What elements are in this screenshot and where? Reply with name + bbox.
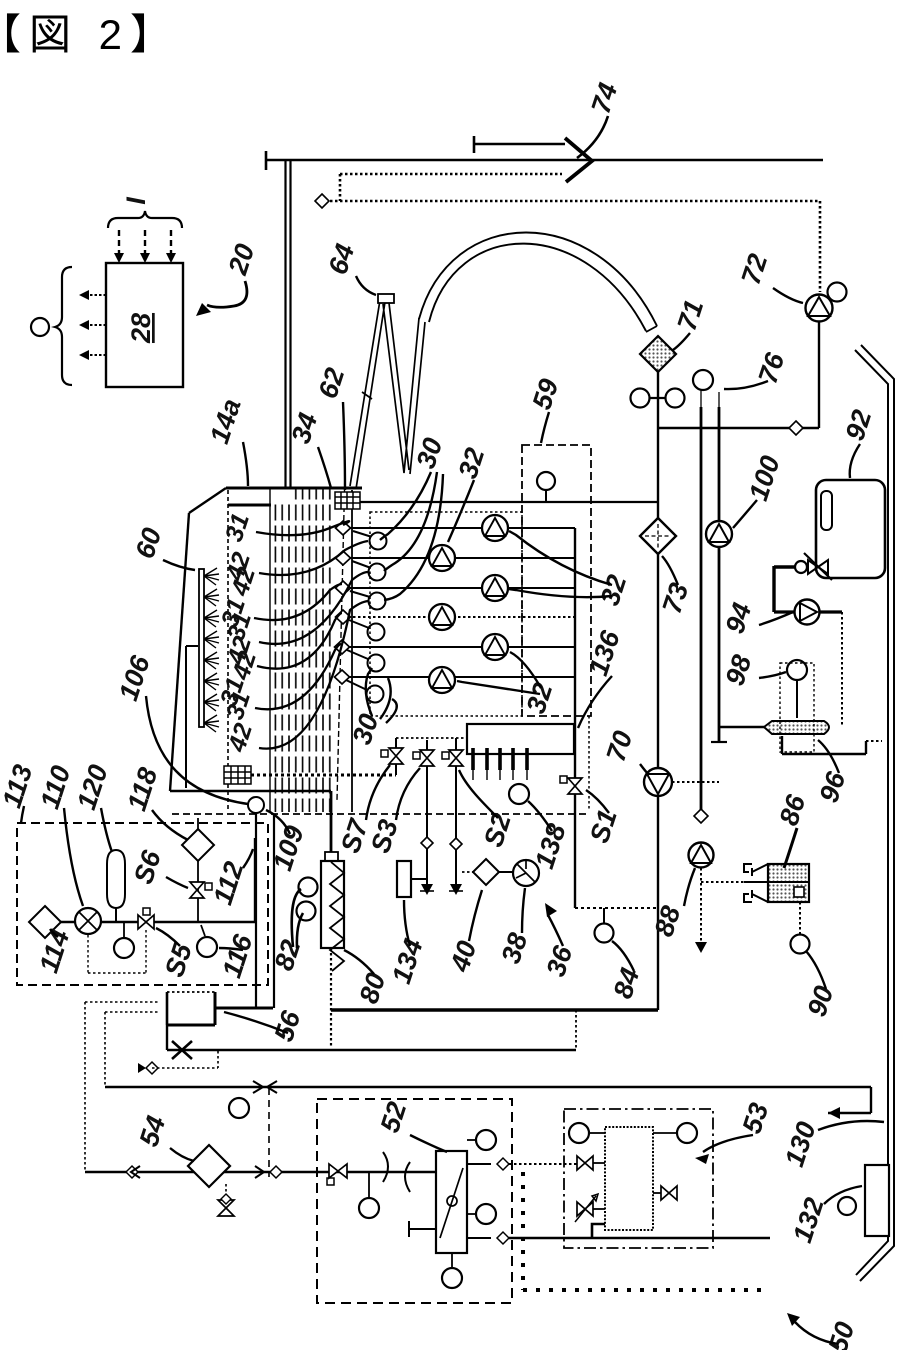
wire: line from tank top to right bbox=[360, 501, 658, 503]
pump 88 bbox=[689, 843, 714, 868]
sensor 138 bbox=[509, 784, 529, 804]
wire: from 56 to drain line bbox=[166, 1025, 168, 1050]
sensor bbox=[368, 1172, 370, 1198]
nozzle circles 31 bbox=[346, 531, 387, 703]
title 図2 bbox=[0, 11, 180, 58]
blower 52 bbox=[436, 1151, 467, 1253]
wire: main line in box bbox=[61, 921, 255, 923]
box 28 bbox=[106, 263, 183, 387]
valve S6 bbox=[197, 861, 199, 922]
tank 134 bbox=[397, 861, 411, 897]
heater box 53 inner bbox=[605, 1127, 653, 1230]
valve at 92 outlet bbox=[808, 560, 828, 574]
svg-text:28: 28 bbox=[126, 313, 156, 344]
pumps 32 column A bbox=[429, 545, 455, 693]
wire: to pump 94 bbox=[774, 565, 796, 568]
sensor 116 bbox=[201, 925, 205, 936]
heat exchanger 96 bbox=[719, 726, 764, 728]
node diamond left of dotted line bbox=[315, 194, 329, 208]
dashed box around 52 bbox=[317, 1099, 512, 1303]
sensors 82 bbox=[299, 878, 318, 897]
wire: drain line bbox=[167, 1049, 576, 1051]
52 outlets bbox=[467, 1139, 476, 1141]
nozzle diamonds 42 bbox=[335, 521, 351, 684]
wire: line x719 bbox=[718, 392, 720, 407]
filter 40 bbox=[473, 859, 499, 885]
valve S3 bbox=[426, 740, 428, 843]
wire: line x701 bbox=[700, 390, 702, 407]
svg-text:【図 2】: 【図 2】 bbox=[0, 11, 180, 58]
brace I over box 28 bbox=[108, 211, 182, 228]
filter 118 bbox=[182, 829, 214, 861]
tank 92 bbox=[816, 480, 885, 578]
burner 86 bbox=[701, 881, 744, 883]
flex coupling bbox=[383, 1152, 410, 1192]
pump 72 bbox=[806, 295, 833, 322]
dashed box 59 bbox=[522, 445, 591, 716]
wire: big box bottom bbox=[331, 1008, 658, 1012]
sprayer 60 bbox=[199, 569, 204, 727]
sensor circle 76 bbox=[693, 370, 713, 390]
wire: long return line bbox=[105, 1086, 871, 1088]
valve X bbox=[172, 1041, 192, 1059]
pump 100 bbox=[706, 521, 732, 547]
duct 64 zigzag bbox=[350, 300, 425, 489]
tank liner dotted bbox=[227, 490, 229, 812]
valve S2 bbox=[455, 738, 457, 844]
pipe arc 64 to 71 bbox=[419, 232, 657, 326]
wire: nozzle row pipes bbox=[343, 528, 575, 677]
wire: dotted header to manifold bbox=[396, 737, 467, 739]
node circle 109 bbox=[248, 797, 264, 813]
tank 14a hatched interior bbox=[271, 489, 333, 812]
grid box bottom bbox=[224, 766, 251, 784]
pump 70 bbox=[644, 768, 672, 796]
sensor 84 bbox=[603, 908, 605, 924]
spray fans bbox=[204, 568, 219, 732]
heater 80 bbox=[325, 852, 338, 861]
dashed box 113 bbox=[17, 823, 268, 985]
pump 110 bbox=[75, 908, 101, 934]
wire: box bottom step bbox=[575, 907, 658, 909]
valve S5 bbox=[138, 915, 154, 929]
drain valve below 54 bbox=[225, 1184, 227, 1200]
tank 56 bbox=[167, 991, 215, 993]
wire: supply line with filter 54 bbox=[85, 1171, 436, 1173]
sprayer feed bbox=[186, 645, 198, 647]
wire: coarse dotted boundary 50 bbox=[521, 1172, 525, 1290]
manifold 136 bbox=[467, 724, 574, 754]
box 132 bbox=[865, 1165, 889, 1236]
wire: dashed tank bottom line bbox=[172, 813, 589, 815]
dotted region box bbox=[370, 512, 522, 716]
tank top edge bbox=[226, 487, 362, 490]
twin circles node bbox=[631, 389, 650, 408]
output arrows left of box 28 bbox=[86, 295, 106, 355]
valve on line bbox=[329, 1164, 347, 1178]
flow sensor 38 bbox=[513, 860, 539, 886]
wire: system box right edge bbox=[574, 528, 576, 908]
dotted branch in box bbox=[145, 930, 147, 973]
tank shoulder bbox=[189, 488, 226, 513]
wire: right edge boundary bbox=[860, 345, 894, 1281]
wire: dotted down from 94 bbox=[841, 612, 843, 727]
sensor under pump bbox=[123, 922, 125, 938]
label O bbox=[31, 318, 49, 336]
wire: short stub line bbox=[474, 143, 565, 146]
wire: nested dotted Ls bbox=[85, 1001, 160, 1003]
valve S7 bbox=[395, 738, 397, 775]
wire: vertical line through 71 73 70 bbox=[657, 371, 659, 521]
wire: heater feed line bbox=[330, 791, 333, 854]
dashed inlet arrows into box 28 bbox=[119, 230, 171, 256]
wire: thick dotted from grid box to S7 bbox=[251, 774, 396, 777]
wire: dotted bypass bbox=[146, 1062, 158, 1074]
wire: dotted recirculation lines bbox=[330, 174, 820, 292]
node diamonds on S3 S2 lines bbox=[421, 837, 433, 849]
valve 74 chevron bbox=[565, 138, 592, 182]
wire: below capsule bbox=[781, 736, 783, 754]
pumps 32 column B bbox=[482, 515, 508, 660]
sensor 98 bbox=[787, 660, 807, 680]
grid box 34 top bbox=[335, 492, 360, 509]
filter 71 bbox=[640, 336, 676, 372]
filter 73 bbox=[640, 518, 676, 554]
tank 120 bbox=[107, 850, 125, 908]
valve S1 bbox=[568, 778, 582, 794]
tank left wall bbox=[170, 513, 189, 791]
tank right wall bbox=[351, 490, 353, 812]
pump 94 bbox=[795, 600, 820, 625]
wire: main feed pipe down to tank bbox=[284, 161, 286, 503]
svg-text:I: I bbox=[121, 197, 151, 205]
brace O bbox=[55, 267, 72, 385]
pipe 106 curve bbox=[146, 696, 248, 804]
wire: dashed break line bbox=[268, 1088, 270, 1177]
wire: twin dotted drop lines 112 bbox=[255, 812, 257, 1008]
filter 114 bbox=[29, 906, 61, 938]
wire: main top line 74 bbox=[266, 159, 823, 162]
wire: from pump72 down and left bbox=[818, 321, 820, 428]
tank bottom bbox=[170, 790, 331, 792]
dash-dot box 53 bbox=[564, 1109, 713, 1248]
